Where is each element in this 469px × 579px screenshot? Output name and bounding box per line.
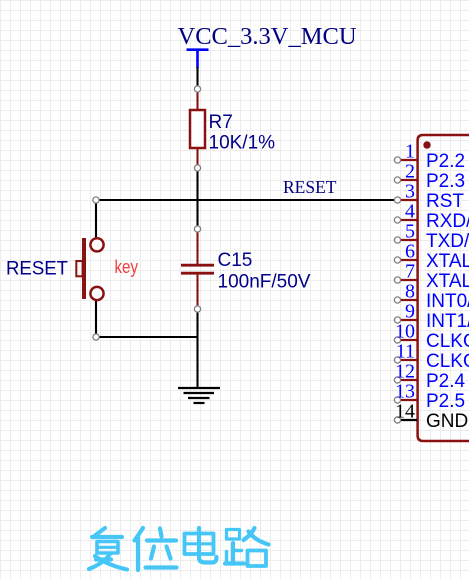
svg-text:12: 12 [395, 361, 415, 383]
node top of capacitor [194, 226, 200, 232]
svg-text:1: 1 [405, 141, 415, 163]
svg-text:C15: C15 [218, 250, 253, 271]
pin 8 INT0/P3.2 [394, 281, 469, 313]
node bottom of resistor [194, 165, 200, 171]
svg-text:7: 7 [405, 261, 415, 283]
svg-text:CLKOUT1: CLKOUT1 [426, 351, 469, 372]
pushbutton SW key (RESET button) [6, 238, 138, 300]
wire capacitor to ground [196, 309, 198, 388]
svg-text:4: 4 [405, 201, 415, 223]
capacitor C15 [181, 229, 311, 309]
resistor R7 [190, 89, 275, 168]
svg-text:3: 3 [405, 181, 415, 203]
IC U1 MCU body [418, 135, 469, 441]
title text 复位电路 (hand-drawn strokes) [89, 528, 269, 570]
pin 2 P2.3 [394, 161, 465, 193]
char 电 [185, 528, 217, 563]
svg-text:100nF/50V: 100nF/50V [218, 272, 311, 293]
pin 14 GND [394, 401, 468, 433]
pin 5 TXD/P3.1 [394, 221, 469, 253]
svg-text:9: 9 [405, 301, 415, 323]
svg-text:R7: R7 [209, 112, 233, 133]
wire middle vertical resistor to capacitor [196, 168, 198, 229]
svg-text:P2.5: P2.5 [426, 391, 465, 412]
svg-text:P2.2: P2.2 [426, 151, 465, 172]
node bottom of capacitor [194, 306, 200, 312]
svg-text:GND: GND [426, 411, 468, 432]
svg-text:6: 6 [405, 241, 415, 263]
power net VCC_3.3V_MCU [178, 23, 357, 68]
ground [178, 388, 220, 403]
svg-text:VCC_3.3V_MCU: VCC_3.3V_MCU [178, 23, 357, 50]
pin 13 P2.5 [394, 381, 465, 413]
svg-text:RESET: RESET [6, 259, 68, 280]
svg-text:key: key [115, 257, 139, 277]
char 复 [89, 528, 127, 570]
pin 12 P2.4 [394, 361, 465, 393]
pin 6 XTAL2/P3.5 [394, 241, 469, 273]
svg-text:P2.3: P2.3 [426, 171, 465, 192]
svg-text:RXD/P3.0: RXD/P3.0 [426, 211, 469, 232]
char 路 [225, 528, 269, 566]
svg-text:XTAL1/P3.4: XTAL1/P3.4 [426, 271, 469, 292]
svg-text:INT1/P3.3: INT1/P3.3 [426, 311, 469, 332]
pin 7 XTAL1/P3.4 [394, 261, 469, 293]
svg-text:INT0/P3.2: INT0/P3.2 [426, 291, 469, 312]
svg-text:10: 10 [395, 321, 415, 343]
svg-text:TXD/P3.1: TXD/P3.1 [426, 231, 469, 252]
wire bottom horizontal [96, 336, 198, 338]
svg-text:13: 13 [395, 381, 415, 403]
char 位 [135, 528, 177, 570]
node wire corner upper left [93, 197, 99, 203]
svg-text:P2.4: P2.4 [426, 371, 466, 392]
svg-text:5: 5 [405, 221, 415, 243]
svg-text:11: 11 [396, 341, 415, 363]
svg-text:CLKOUT2: CLKOUT2 [426, 331, 469, 352]
svg-text:RESET: RESET [283, 177, 337, 197]
wire power to resistor [196, 67, 198, 86]
svg-text:RST: RST [426, 191, 464, 212]
pin 10 CLKOUT2 [394, 321, 469, 353]
pin 3 RST [394, 181, 464, 213]
wire main horizontal RESET net [96, 199, 395, 201]
wire left branch upper vertical [95, 199, 97, 239]
svg-text:8: 8 [405, 281, 415, 303]
pin 4 RXD/P3.0 [394, 201, 469, 233]
pin 9 INT1/P3.3 [394, 301, 469, 333]
pin 11 CLKOUT1 [394, 341, 469, 373]
node top of resistor [194, 86, 200, 92]
svg-text:14: 14 [395, 401, 415, 423]
wire left branch lower vertical [95, 299, 97, 337]
svg-text:10K/1%: 10K/1% [209, 133, 276, 154]
node wire corner lower left [93, 334, 99, 340]
svg-text:XTAL2/P3.5: XTAL2/P3.5 [426, 251, 469, 272]
svg-text:2: 2 [405, 161, 415, 183]
pin 1 P2.2 [394, 141, 465, 173]
